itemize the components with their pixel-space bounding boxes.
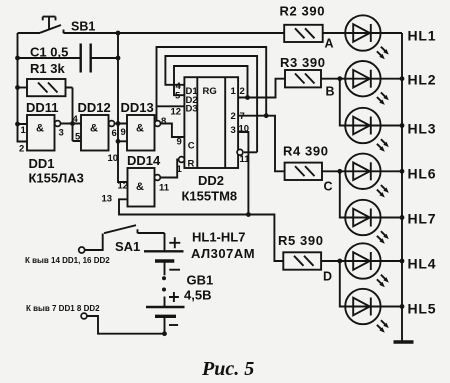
svg-text:АЛ307АМ: АЛ307АМ — [191, 246, 255, 261]
svg-text:R3 390: R3 390 — [280, 55, 326, 70]
svg-text:2: 2 — [240, 86, 245, 97]
svg-text:DD2: DD2 — [198, 173, 224, 188]
svg-text:HL6: HL6 — [408, 166, 437, 182]
svg-text:5: 5 — [75, 132, 81, 143]
svg-text:&: & — [136, 123, 144, 135]
LED HL6 — [345, 154, 402, 198]
resistor R4 — [285, 163, 346, 180]
wire DD1.3 out to C pin DD2 — [161, 124, 185, 138]
svg-text:C: C — [324, 180, 333, 194]
resistor R1 — [18, 79, 82, 141]
svg-text:GB1: GB1 — [187, 273, 214, 288]
svg-text:1: 1 — [231, 86, 237, 97]
svg-text:2: 2 — [231, 111, 236, 122]
svg-text:3: 3 — [231, 125, 236, 136]
wire pin7 to R4 — [238, 116, 285, 172]
wire feedback outer loop pin8 pin12 — [157, 47, 267, 120]
wire DD1.4 pin13 long wire to R5 — [119, 199, 283, 261]
svg-text:HL5: HL5 — [408, 301, 437, 317]
svg-text:5: 5 — [175, 91, 181, 102]
gate DD1.4 — [128, 168, 161, 207]
wire pin2 to R3 — [238, 79, 285, 98]
svg-text:SB1: SB1 — [71, 20, 95, 34]
svg-text:R4 390: R4 390 — [283, 144, 329, 159]
svg-text:12: 12 — [171, 107, 182, 118]
gate DD1.1 — [27, 115, 60, 151]
wire pair bus B to HL3 — [340, 79, 345, 126]
svg-text:4,5В: 4,5В — [184, 288, 211, 303]
battery GB1 — [144, 233, 185, 334]
node junction pin7 loop — [264, 113, 269, 118]
svg-text:D3: D3 — [186, 104, 198, 115]
LED HL5 — [345, 289, 402, 333]
LED HL7 — [345, 200, 402, 244]
gate DD1.3 — [127, 115, 161, 151]
wire left rail node DD1.1 inputs — [18, 33, 28, 142]
svg-text:HL3: HL3 — [408, 121, 437, 137]
svg-text:D: D — [323, 270, 332, 284]
node junction rail C1 — [15, 56, 20, 61]
wire DD1.1 out to DD1.2 inputs — [61, 123, 82, 125]
node junction top wire x118 — [116, 31, 121, 36]
svg-text:DD1: DD1 — [29, 156, 55, 171]
node junction pin10 wire on long wire — [246, 212, 251, 217]
svg-text:HL1: HL1 — [408, 28, 437, 44]
svg-text:DD12: DD12 — [78, 100, 111, 115]
svg-text:Рис. 5: Рис. 5 — [201, 358, 254, 380]
node junctions on x118 vertical — [116, 56, 121, 61]
svg-text:HL1-HL7: HL1-HL7 — [192, 230, 245, 245]
node junction pin2 loop — [245, 95, 250, 100]
svg-text:6: 6 — [112, 128, 117, 139]
svg-text:C: C — [188, 141, 195, 152]
wire DD1.4 out to R pin DD2 — [160, 160, 178, 178]
svg-text:К выв 14 DD1, 16 DD2: К выв 14 DD1, 16 DD2 — [25, 256, 110, 265]
svg-text:9: 9 — [121, 127, 126, 138]
svg-text:HL7: HL7 — [408, 211, 437, 227]
svg-text:SA1: SA1 — [115, 239, 140, 254]
wire vertical DD1.2 output node — [118, 33, 128, 182]
resistor R2 — [284, 25, 345, 42]
svg-text:3: 3 — [59, 128, 64, 139]
svg-text:HL4: HL4 — [408, 256, 437, 272]
svg-text:4: 4 — [73, 114, 79, 125]
svg-text:8: 8 — [161, 116, 166, 127]
wire right bus common cathode — [401, 33, 403, 342]
svg-text:12: 12 — [118, 181, 129, 192]
node junction rail pin1 — [15, 122, 20, 127]
register DD2 body — [179, 77, 243, 169]
svg-text:К155ЛА3: К155ЛА3 — [29, 171, 84, 186]
svg-text:DD14: DD14 — [127, 153, 161, 168]
svg-text:HL2: HL2 — [408, 72, 437, 88]
node junction rail R1 — [15, 85, 20, 90]
resistor R5 — [283, 252, 345, 269]
svg-text:&: & — [136, 181, 144, 193]
svg-text:К выв 7 DD1 8 DD2: К выв 7 DD1 8 DD2 — [26, 304, 100, 313]
svg-text:A: A — [325, 37, 334, 51]
wire feedback middle loop pin11 to pin4 — [165, 56, 257, 152]
svg-text:1: 1 — [21, 125, 27, 136]
svg-text:R1 3k: R1 3k — [30, 61, 65, 76]
LED HL3 — [345, 108, 402, 152]
svg-text:C1 0,5: C1 0,5 — [30, 45, 68, 60]
svg-text:R2 390: R2 390 — [280, 4, 326, 19]
wire top from rail to SB1 left contact — [18, 32, 41, 34]
LED HL2 — [345, 61, 402, 105]
wire top from SB1 to R2 — [64, 32, 285, 34]
node junction R1 DD1.1 out — [70, 121, 75, 126]
wire battery minus to terminal — [87, 316, 165, 334]
svg-text:2: 2 — [19, 144, 24, 155]
svg-text:B: B — [326, 85, 335, 99]
svg-text:&: & — [36, 123, 44, 135]
svg-text:11: 11 — [159, 183, 170, 194]
svg-text:13: 13 — [102, 194, 113, 205]
gate DD1.2 — [81, 115, 115, 151]
wire pin11 to middle loop — [244, 151, 257, 153]
resistor R3 — [285, 70, 345, 87]
svg-text:&: & — [90, 123, 98, 135]
svg-text:DD11: DD11 — [26, 100, 59, 115]
wire pair bus D to HL5 — [340, 261, 345, 307]
wire pair bus C to HL7 — [340, 171, 345, 217]
LED HL1 — [345, 15, 402, 59]
svg-text:R: R — [188, 159, 195, 170]
svg-text:1: 1 — [177, 164, 183, 175]
wire feedback inner loop pin2 to pin5 — [174, 66, 248, 98]
svg-text:К155ТМ8: К155ТМ8 — [182, 189, 238, 204]
svg-text:RG: RG — [203, 86, 217, 97]
svg-text:9: 9 — [177, 137, 182, 148]
wire pin10 down to long wire — [238, 132, 248, 215]
capacitor C1 — [18, 44, 119, 73]
svg-text:R5 390: R5 390 — [278, 233, 324, 248]
pushbutton SB1 — [40, 17, 64, 34]
svg-text:10: 10 — [108, 153, 119, 164]
svg-text:DD13: DD13 — [121, 100, 154, 115]
terminal to pin7 DD1 8 DD2 — [81, 313, 87, 319]
wire DD1.2 out — [115, 123, 128, 125]
terminal to pin14 DD1 16 DD2 — [79, 247, 85, 253]
LED HL4 — [345, 243, 402, 287]
switch SA1 — [85, 225, 165, 250]
